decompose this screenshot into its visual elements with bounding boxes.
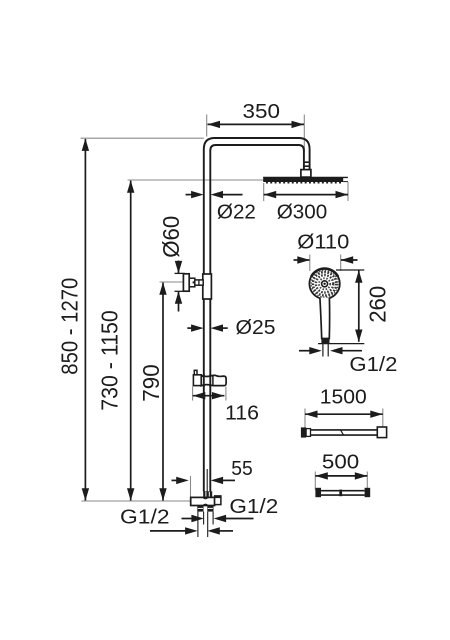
rain shower head disc D300 (263, 177, 348, 182)
hand shower head outer rim (309, 269, 339, 299)
wire extension D110 left (309, 255, 311, 272)
hand shower spray ring middle (316, 275, 333, 292)
dimension tee left G1/2 arrows (150, 527, 233, 534)
wire extension 116 right (225, 387, 227, 401)
dimension label 790 (138, 364, 164, 402)
wire extension 350 left (206, 115, 208, 137)
slider holder clamp block (193, 375, 201, 386)
riser bottom nut (203, 491, 212, 497)
svg-text:Ø60: Ø60 (158, 216, 184, 258)
dimension label D110 (297, 231, 349, 254)
dimension D110 arrows (294, 256, 358, 263)
svg-text:730 - 1150: 730 - 1150 (97, 310, 123, 411)
svg-text:1500: 1500 (320, 385, 367, 408)
svg-text:G1/2: G1/2 (349, 353, 397, 376)
dimension label 730-1150 (97, 310, 123, 411)
svg-text:Ø300: Ø300 (277, 200, 328, 223)
dimension label hand G1/2 (349, 353, 397, 376)
diverter pull rod (206, 469, 208, 492)
dimension label D60 (158, 216, 184, 258)
tee right outlet nut (207, 505, 213, 511)
dimension label 55 (231, 457, 253, 480)
tee outlet nipple (215, 496, 221, 505)
dimension label tee right G1/2 (229, 495, 278, 518)
svg-text:790: 790 (138, 364, 164, 402)
svg-text:116: 116 (225, 402, 259, 425)
svg-text:350: 350 (243, 100, 281, 123)
dimension hand G1/2 arrows (299, 347, 362, 354)
dimension label D22 (217, 200, 256, 223)
wire extension D300 left (263, 183, 265, 201)
wall bracket body (189, 278, 195, 287)
wire bottom datum line (82, 500, 198, 502)
dimension D22 arrows (186, 191, 243, 198)
shower riser pipe and overhead arm inner contour (210, 145, 304, 492)
bracket sleeve on riser (203, 274, 212, 299)
dimension label D25 (236, 316, 276, 339)
shower hose 1500 right conical nut (377, 427, 386, 438)
dimension 116 line (193, 392, 225, 399)
dimension label 350 (243, 100, 281, 123)
slider holder release pin (194, 370, 197, 375)
connection hose 500 body (321, 490, 365, 497)
connection hose 500 right fitting (365, 488, 371, 497)
wire extension 500 right (366, 472, 368, 491)
tee left outlet nut (197, 505, 203, 511)
dimension 260 line (318, 270, 364, 344)
dimension tee right G1/2 arrows (182, 515, 254, 522)
slider holder cup (201, 375, 226, 385)
wire extension 500 left (314, 472, 316, 491)
tee body (191, 497, 215, 505)
rain head spray nozzles (266, 182, 341, 184)
wire datum line (bracket centre reference for 790) (160, 281, 184, 283)
wire extension 1500 right (382, 409, 384, 430)
connection hose 500 left fitting (315, 488, 321, 497)
wire extension 1500 left (304, 409, 306, 430)
dimension D25 arrows (187, 324, 227, 331)
dimension label 500 (322, 451, 359, 474)
wire datum line top (pipe top reference for 850-1270) (81, 137, 204, 139)
wire extension D110 right (340, 255, 342, 272)
dimension 500 line (315, 472, 367, 479)
hand shower spray ring outer (311, 270, 338, 297)
dimension D300 line (264, 191, 348, 198)
rain head connector nut (301, 170, 311, 178)
wire extension 350 right (303, 115, 305, 153)
dimension label D300 (277, 200, 328, 223)
wire extension D300 right (347, 182, 349, 201)
hand shower centre cap (322, 281, 328, 287)
hand shower handle nut (321, 339, 329, 344)
dimension label 1500 (320, 385, 367, 408)
wire extension 116 left (192, 387, 194, 401)
dimension 1500 line (305, 411, 383, 418)
svg-text:G1/2: G1/2 (229, 495, 278, 518)
wall bracket flange D60 (183, 274, 189, 291)
hand shower spray ring inner (319, 278, 330, 289)
riser pipe edges through holder (204, 374, 211, 387)
dimension 850-1270 line (82, 138, 89, 500)
svg-text:Ø110: Ø110 (297, 231, 349, 254)
wire datum line (head spray face reference for 730-1150) (128, 179, 264, 181)
wire extension 55 left (190, 476, 192, 504)
dimension label 850-1270 (57, 278, 83, 375)
wall bracket screw (193, 281, 195, 283)
svg-text:260: 260 (364, 286, 390, 323)
shower riser pipe and overhead arm outer contour (204, 138, 310, 492)
shower hose 1500 left fitting (301, 427, 311, 437)
svg-text:Ø25: Ø25 (236, 316, 276, 339)
dimension 350 line (208, 121, 305, 128)
hand shower handle (320, 298, 330, 339)
svg-text:850 - 1270: 850 - 1270 (57, 278, 83, 375)
svg-text:G1/2: G1/2 (120, 506, 170, 529)
dimension D60 arrows (175, 261, 185, 312)
dimension label 116 (225, 402, 259, 425)
wall bracket arm (195, 280, 204, 285)
svg-text:500: 500 (322, 451, 359, 474)
shower hose 1500 body (311, 430, 378, 435)
svg-text:Ø22: Ø22 (217, 200, 256, 223)
dimension 55 arrows (172, 477, 236, 484)
dimension 790 line (159, 282, 166, 501)
wire handle thread tails (323, 344, 328, 357)
head down-tube joint collar (304, 162, 310, 169)
dimension label 260 (364, 286, 390, 323)
svg-text:55: 55 (231, 457, 253, 480)
wire outlet tails (198, 512, 213, 537)
dimension 730-1150 line (127, 180, 134, 501)
dimension label tee left G1/2 (120, 506, 170, 529)
